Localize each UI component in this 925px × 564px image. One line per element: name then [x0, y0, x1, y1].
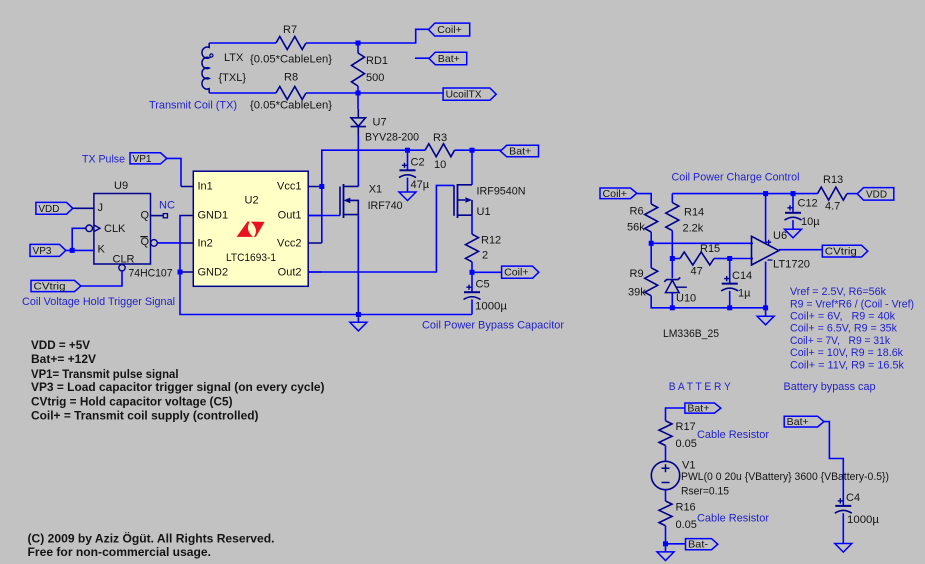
junction: [356, 312, 361, 317]
transistor U1 IRF9540N: [454, 184, 526, 218]
wire: [357, 93, 359, 109]
zener U10 LM336B_25: [663, 259, 719, 341]
svg-text:Out1: Out1: [278, 210, 302, 222]
wire: [765, 262, 767, 308]
svg-text:Coil+ = 6V, R9 = 40k: Coil+ = 6V, R9 = 40k: [790, 311, 895, 323]
capacitor C14: [721, 259, 752, 308]
wire: [308, 215, 340, 217]
wire: [415, 57, 430, 59]
wire: [847, 193, 857, 195]
svg-text:Vcc1: Vcc1: [277, 181, 301, 193]
svg-text:B A T T E R Y: B A T T E R Y: [669, 381, 732, 393]
svg-text:Cable Resistor: Cable Resistor: [697, 512, 769, 524]
svg-text:TX Pulse: TX Pulse: [82, 154, 125, 166]
comment Coil Voltage Hold Trigger Signal: [22, 296, 175, 308]
wire: [455, 149, 502, 151]
svg-text:Battery bypass cap: Battery bypass cap: [784, 381, 876, 393]
ground (right rail): [757, 308, 774, 325]
resistor R16: [659, 501, 697, 531]
svg-text:V1: V1: [682, 460, 695, 472]
junction: [663, 541, 668, 546]
svg-text:Coil+: Coil+: [504, 267, 528, 279]
svg-text:Cable Resistor: Cable Resistor: [697, 429, 769, 441]
svg-text:LTC1693-1: LTC1693-1: [226, 252, 276, 264]
svg-text:4.7: 4.7: [825, 201, 840, 213]
svg-text:R13: R13: [823, 174, 843, 186]
svg-text:Q: Q: [141, 236, 150, 248]
junction: [356, 91, 361, 96]
comment Coil Power Charge Control: [672, 171, 800, 183]
wire: [730, 258, 753, 260]
svg-text:J: J: [98, 202, 104, 214]
capacitor C5: [464, 272, 508, 314]
junction: [791, 191, 796, 196]
comment Battery bypass cap: [784, 381, 876, 393]
wire: [66, 249, 94, 251]
ground (C2): [399, 192, 416, 201]
wire: [471, 215, 473, 234]
svg-text:VDD: VDD: [38, 203, 59, 215]
svg-text:Coil+: Coil+: [603, 188, 628, 200]
svg-text:GND1: GND1: [198, 210, 229, 222]
svg-text:56k: 56k: [627, 222, 645, 234]
svg-text:Bat-: Bat-: [688, 539, 709, 551]
comment Cable Resistor (R16): [697, 512, 769, 524]
svg-text:In1: In1: [198, 181, 213, 193]
wire: [671, 231, 673, 259]
svg-text:R12: R12: [481, 235, 501, 247]
capacitor C2: [399, 150, 430, 192]
svg-text:VP3: VP3: [33, 245, 52, 257]
svg-text:Coil Voltage Hold Trigger Sign: Coil Voltage Hold Trigger Signal: [22, 296, 175, 308]
svg-text:Coil+ = 10V, R9 = 18.6k: Coil+ = 10V, R9 = 18.6k: [790, 347, 903, 359]
wire: [665, 490, 667, 501]
svg-text:1000µ: 1000µ: [847, 514, 880, 526]
flag UcoilTX: [443, 88, 496, 101]
svg-text:Rser=0.15: Rser=0.15: [681, 486, 729, 498]
wire: [157, 242, 181, 244]
flag Bat-: [686, 539, 718, 551]
svg-text:C5: C5: [476, 279, 490, 291]
svg-text:CVtrig = Hold capacitor voltag: CVtrig = Hold capacitor voltage (C5): [31, 394, 233, 408]
junction: [727, 305, 732, 310]
svg-text:In2: In2: [198, 238, 213, 250]
wire: [765, 194, 767, 243]
diode U7 BYV28-200: [351, 109, 419, 144]
junction: [405, 148, 410, 153]
svg-text:Transmit Coil (TX): Transmit Coil (TX): [149, 100, 237, 112]
ground (C12): [785, 229, 802, 238]
svg-text:VDD = +5V: VDD = +5V: [31, 338, 90, 352]
svg-text:VP1: VP1: [133, 153, 152, 165]
wire: [471, 262, 473, 273]
wire: [651, 242, 753, 244]
svg-text:CLR: CLR: [113, 254, 135, 266]
resistor R15: [680, 243, 720, 278]
junction: [470, 270, 475, 275]
resistor R17: [659, 421, 697, 450]
comparator U6 LT1720: [752, 230, 811, 270]
inductor LTX (transmit coil): [202, 43, 246, 93]
svg-text:R15: R15: [700, 243, 720, 255]
ground (battery): [657, 544, 674, 561]
flag Bat+ (top): [429, 52, 467, 65]
svg-text:IRF9540N: IRF9540N: [477, 186, 526, 198]
svg-text:X1: X1: [369, 184, 382, 196]
svg-text:IRF740: IRF740: [368, 200, 403, 212]
svg-text:R16: R16: [676, 502, 696, 514]
wire: [666, 543, 686, 545]
wire: [650, 232, 652, 243]
wire: [306, 92, 443, 94]
svg-text:BYV28-200: BYV28-200: [365, 132, 419, 144]
wire: [779, 249, 823, 251]
junction: [763, 305, 768, 310]
wire: [672, 193, 817, 195]
junction: [763, 191, 768, 196]
svg-text:Coil+ = Transmit coil supply (: Coil+ = Transmit coil supply (controlled…: [31, 409, 259, 423]
svg-text:74HC107: 74HC107: [129, 268, 173, 280]
svg-text:VP3 = Load capacitor trigger s: VP3 = Load capacitor trigger signal (on …: [31, 380, 325, 394]
svg-text:U10: U10: [676, 293, 696, 305]
flag VP3: [30, 244, 66, 257]
transistor X1 IRF740: [340, 184, 403, 218]
svg-text:U7: U7: [373, 117, 387, 129]
svg-text:(C) 2009 by Aziz Ögüt. All Rig: (C) 2009 by Aziz Ögüt. All Rights Reserv…: [28, 533, 275, 546]
ground (main rail): [350, 315, 367, 331]
wire: [650, 243, 652, 267]
svg-text:R8: R8: [284, 72, 298, 84]
wire: [209, 92, 276, 94]
junction: [727, 256, 732, 261]
junction: [178, 270, 183, 275]
svg-text:Coil Power Bypass Capacitor: Coil Power Bypass Capacitor: [422, 320, 564, 332]
svg-text:NC: NC: [159, 200, 175, 212]
wire: [209, 42, 276, 44]
svg-text:Bat+: Bat+: [438, 53, 460, 65]
svg-text:Free for non-commercial usage.: Free for non-commercial usage.: [28, 547, 212, 559]
svg-text:2: 2: [482, 250, 488, 262]
junction: [319, 184, 324, 189]
svg-text:LM336B_25: LM336B_25: [663, 328, 719, 340]
wire: [81, 271, 122, 286]
wire: [72, 228, 82, 250]
svg-text:U6: U6: [773, 230, 787, 242]
svg-text:500: 500: [366, 72, 384, 84]
svg-text:Out2: Out2: [278, 267, 302, 279]
wire: [180, 216, 472, 315]
junction: [356, 41, 361, 46]
svg-text:VP1= Transmit pulse signal: VP1= Transmit pulse signal: [31, 367, 179, 381]
wire: [308, 185, 454, 272]
comment BATTERY: [669, 381, 732, 393]
ground (C4): [835, 544, 852, 553]
flag Bat+ (bypass): [784, 416, 824, 428]
svg-text:U1: U1: [477, 206, 491, 218]
junction: [70, 248, 75, 253]
wire: [167, 158, 181, 186]
comment Coil Power Bypass Capacitor: [422, 320, 564, 332]
svg-text:R7: R7: [283, 24, 297, 36]
svg-text:{TXL}: {TXL}: [219, 72, 247, 84]
svg-text:CVtrig: CVtrig: [825, 246, 857, 258]
svg-text:1000µ: 1000µ: [475, 301, 508, 313]
comment design notes: [790, 286, 914, 371]
svg-text:Q: Q: [141, 210, 150, 222]
svg-text:K: K: [98, 244, 106, 256]
flag Bat+ (right of R3): [500, 145, 538, 157]
wire: [357, 184, 359, 315]
svg-text:PWL(0 0 20u {VBattery} 3600 {V: PWL(0 0 20u {VBattery} 3600 {VBattery-0.…: [681, 471, 889, 483]
svg-text:R6: R6: [630, 206, 644, 218]
wire: [671, 194, 673, 203]
flag Coil+ (top): [429, 23, 470, 36]
svg-text:Vref = 2.5V, R6=56k: Vref = 2.5V, R6=56k: [790, 286, 886, 298]
LT logo (red): [237, 222, 265, 237]
svg-text:R9: R9: [630, 268, 644, 280]
svg-text:C12: C12: [798, 198, 818, 210]
flag VDD (left): [36, 202, 73, 214]
resistor R7: [250, 24, 332, 66]
svg-text:Bat+: Bat+: [687, 403, 709, 415]
svg-text:{0.05*CableLen}: {0.05*CableLen}: [250, 100, 332, 112]
wire: [824, 422, 843, 506]
info text block: [31, 338, 325, 423]
svg-text:U2: U2: [245, 195, 259, 207]
flag Coil+ (mid): [502, 266, 539, 279]
svg-text:Coil+: Coil+: [437, 24, 462, 36]
flag Coil+ (charge ctrl): [600, 188, 637, 200]
comment Cable Resistor (R17): [697, 429, 769, 441]
svg-text:LT1720: LT1720: [773, 258, 810, 270]
wire: [665, 526, 667, 544]
svg-text:C4: C4: [846, 492, 860, 504]
svg-text:39k: 39k: [628, 287, 646, 299]
junction: [649, 241, 654, 246]
flag CVtrig (right): [822, 245, 868, 257]
wire: [714, 258, 730, 260]
comment NC: [159, 200, 175, 212]
voltage source V1: [651, 460, 889, 498]
junction: [670, 305, 675, 310]
resistor R12: [466, 234, 502, 262]
svg-text:0.05: 0.05: [676, 519, 697, 531]
resistor R9: [628, 268, 658, 299]
junction: [670, 256, 675, 261]
flag VDD (right): [857, 188, 894, 201]
wire: [665, 446, 667, 462]
wire: [666, 408, 685, 421]
wire: [651, 296, 765, 308]
svg-text:U9: U9: [114, 180, 128, 192]
svg-text:C2: C2: [411, 157, 425, 169]
wire: [322, 150, 425, 243]
wire: [637, 194, 651, 204]
comment Transmit Coil (TX): [149, 100, 237, 112]
svg-text:Bat+: Bat+: [509, 146, 531, 158]
svg-text:Bat+: Bat+: [787, 416, 809, 428]
svg-text:RD1: RD1: [366, 55, 388, 67]
svg-text:VDD: VDD: [866, 188, 887, 200]
resistor R8: [250, 72, 332, 112]
svg-text:C14: C14: [732, 270, 752, 282]
flag Bat+ (battery): [685, 403, 721, 415]
svg-text:R14: R14: [684, 207, 704, 219]
svg-text:Coil+ = 7V, R9 = 31k: Coil+ = 7V, R9 = 31k: [790, 335, 890, 347]
svg-text:Vcc2: Vcc2: [277, 238, 301, 250]
comment TX Pulse: [82, 154, 125, 166]
resistor R3: [425, 132, 455, 171]
flag CVtrig (left): [31, 280, 81, 292]
IC U9 74HC107: [73, 180, 173, 280]
svg-text:2.2k: 2.2k: [683, 223, 704, 235]
wire: [471, 150, 473, 185]
svg-text:R17: R17: [676, 421, 696, 433]
svg-text:R9 = Vref*R6 / (Coil - Vref): R9 = Vref*R6 / (Coil - Vref): [790, 298, 914, 310]
capacitor C12: [785, 194, 821, 230]
resistor R13: [818, 174, 848, 213]
svg-text:CVtrig: CVtrig: [34, 281, 66, 293]
svg-text:CLK: CLK: [104, 223, 126, 235]
svg-text:GND2: GND2: [198, 267, 229, 279]
svg-text:LTX: LTX: [224, 52, 244, 64]
flag VP1: [130, 153, 167, 165]
wire: [672, 258, 680, 260]
svg-text:0.05: 0.05: [676, 438, 697, 450]
svg-text:UcoilTX: UcoilTX: [446, 89, 482, 101]
capacitor C4: [835, 492, 880, 544]
svg-text:R3: R3: [433, 132, 447, 144]
svg-text:Bat+= +12V: Bat+= +12V: [31, 352, 96, 366]
svg-text:{0.05*CableLen}: {0.05*CableLen}: [250, 54, 332, 66]
resistor R6: [627, 204, 658, 234]
svg-text:10: 10: [434, 159, 446, 171]
svg-text:10µ: 10µ: [801, 216, 820, 228]
copyright text: [28, 533, 275, 560]
svg-text:Coil+ = 6.5V, R9 = 35k: Coil+ = 6.5V, R9 = 35k: [790, 323, 897, 335]
wire: [357, 136, 359, 187]
svg-text:Coil Power Charge Control: Coil Power Charge Control: [672, 171, 800, 183]
resistor R14: [666, 203, 704, 235]
svg-text:1µ: 1µ: [738, 288, 751, 300]
wire: [306, 29, 429, 43]
svg-text:Coil+ = 11V, R9 = 16.5k: Coil+ = 11V, R9 = 16.5k: [790, 359, 904, 371]
IC U2 LTC1693-1: [181, 171, 322, 286]
junction: [470, 148, 475, 153]
wire: [472, 271, 502, 273]
svg-text:47µ: 47µ: [411, 179, 430, 191]
resistor RD1: [352, 43, 389, 93]
svg-text:47: 47: [691, 266, 703, 278]
